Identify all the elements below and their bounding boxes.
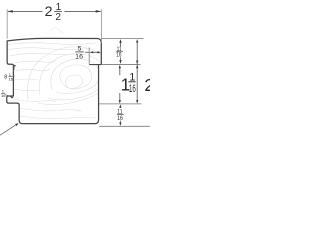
dim 2 1/2 arrowheads <box>7 10 101 13</box>
dim 5/16 <box>85 51 98 53</box>
dim 11/16 bottom right <box>119 107 121 123</box>
svg-text:2: 2 <box>45 4 53 20</box>
svg-text:16: 16 <box>116 53 122 59</box>
svg-text:16: 16 <box>129 83 136 95</box>
5/16 extension line vertical <box>88 48 90 65</box>
dim 2 bottom arrowhead <box>136 100 138 103</box>
dim 1 1/16 up arrowhead <box>119 65 121 68</box>
dim 1 1/16 down arrowhead <box>119 100 121 103</box>
grain nest arc 3 (open left) <box>51 59 99 94</box>
grain wave 7 <box>14 89 40 91</box>
grain nest inner ellipse <box>66 75 83 89</box>
svg-text:8: 8 <box>4 74 7 80</box>
grain wave 10 <box>20 116 96 119</box>
wood grain (light) <box>8 28 108 119</box>
extension line y=103.85 <box>99 103 142 105</box>
dim 11/16 top right <box>120 42 122 61</box>
bottom-left leader <box>0 125 16 136</box>
svg-text:16: 16 <box>75 54 83 61</box>
svg-text:16: 16 <box>1 93 6 98</box>
wood outline <box>7 38 102 123</box>
dim 2 1/2 line <box>8 10 101 12</box>
rabbet shoulder <box>89 64 101 66</box>
dim 2 top arrowhead <box>136 39 138 42</box>
left tiny dim A (step) <box>13 67 15 72</box>
svg-text:2: 2 <box>144 75 150 95</box>
grain wave 4 <box>14 61 56 63</box>
grain nest arc 4 (open left) <box>39 54 104 100</box>
dim 1 1/16 <box>119 68 121 101</box>
svg-text:16: 16 <box>9 76 14 81</box>
grain wave 5 <box>14 69 50 71</box>
grain wave 8 <box>14 99 56 102</box>
grain wave 9 <box>20 108 82 111</box>
top-right extension line <box>101 37 143 39</box>
dim 11/16 bottom arrowheads <box>119 104 121 126</box>
shoulder extension line <box>102 63 141 65</box>
svg-text:16: 16 <box>117 116 123 122</box>
grain nest arc 5 (open left) <box>28 47 109 105</box>
grain wave 6 <box>14 79 38 80</box>
grain wave 1 <box>8 43 98 45</box>
grain nest arc 2 <box>60 65 92 89</box>
dim 2 far right (double dimension line) <box>136 42 138 101</box>
top dimension extension lines <box>7 9 101 43</box>
grain squiggle above board <box>50 28 63 33</box>
grain wave 2 <box>8 48 88 50</box>
extension line y=126.3 <box>99 125 150 127</box>
grain wave 3 <box>9 52 85 56</box>
dim 5/16 arrowheads <box>89 51 101 53</box>
dim 11/16 top arrowheads <box>119 39 121 64</box>
dim 2 middle arrowheads <box>136 61 138 64</box>
svg-text:2: 2 <box>55 12 61 23</box>
